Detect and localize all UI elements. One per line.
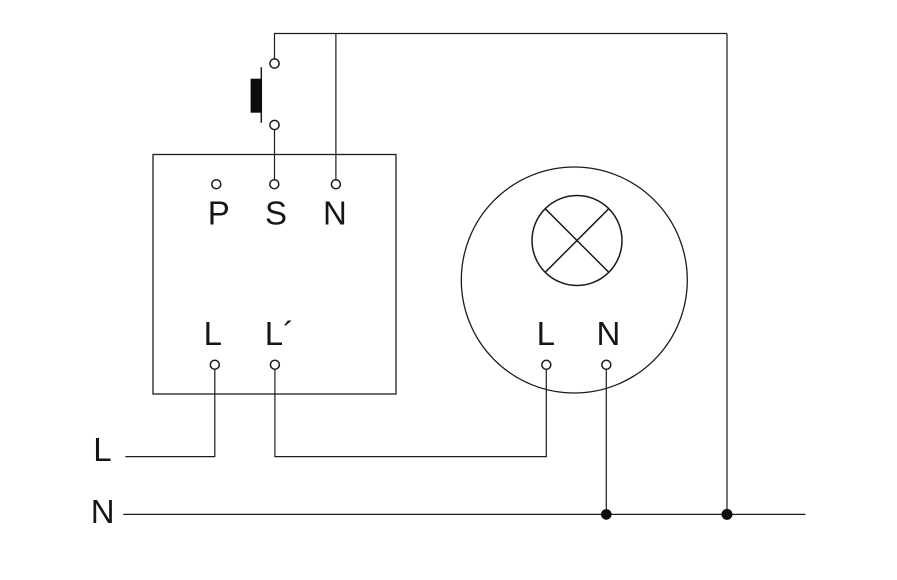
junction node on N rail at right drop: [722, 509, 733, 520]
terminal N (lamp): [602, 360, 611, 369]
svg-text:L: L: [537, 315, 555, 352]
wire switch to terminal S: [274, 125, 276, 184]
terminal N: [331, 180, 340, 189]
svg-text:L: L: [93, 431, 111, 468]
svg-text:N: N: [323, 194, 347, 231]
wire N rail: [123, 513, 805, 515]
svg-text:P: P: [208, 194, 230, 231]
wire terminal L' to lamp terminal L: [275, 365, 546, 457]
terminal P: [212, 180, 221, 189]
lamp fixture outline: [461, 167, 687, 393]
wire top to terminal N: [335, 34, 337, 185]
svg-text:L´: L´: [265, 315, 294, 352]
wire L supply to top-left corner: [275, 34, 728, 64]
terminal L (box): [210, 360, 219, 369]
terminal L' (box): [270, 360, 279, 369]
svg-text:N: N: [91, 493, 115, 530]
wire lamp terminal N to N rail: [605, 365, 607, 515]
control unit box U1: [153, 155, 396, 395]
wire right drop to N rail: [726, 34, 728, 515]
svg-text:S: S: [265, 194, 287, 231]
svg-text:N: N: [596, 315, 620, 352]
junction node on N rail at lamp wire: [601, 509, 612, 520]
terminal S: [270, 180, 279, 189]
svg-text:L: L: [204, 315, 222, 352]
terminal L (lamp): [542, 360, 551, 369]
lamp E1: [532, 196, 622, 286]
wire terminal L to supply L: [125, 365, 214, 457]
pushbutton S1: [251, 59, 280, 130]
